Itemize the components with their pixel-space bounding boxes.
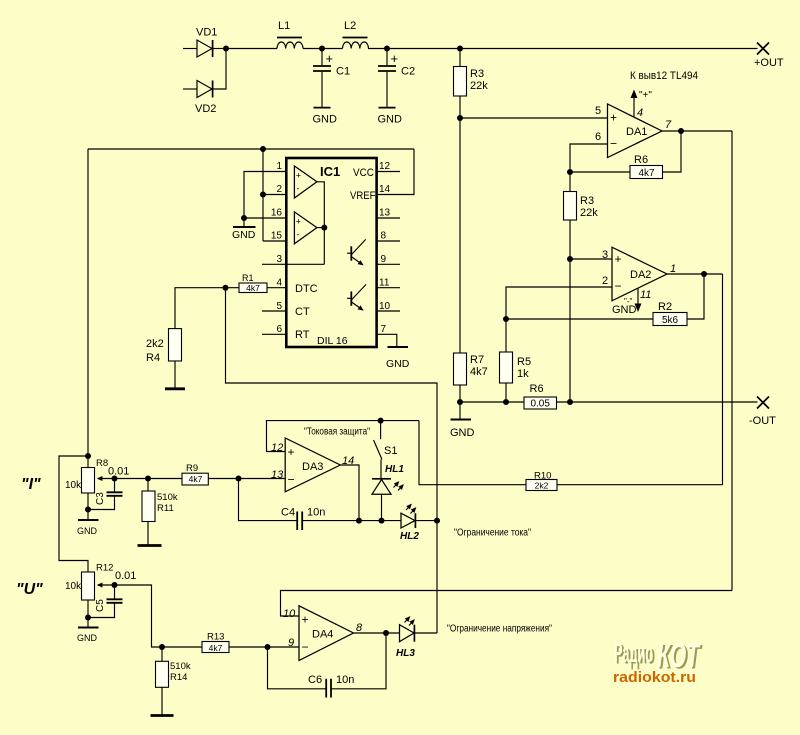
transistor Q inside IC1 (upper) <box>347 239 366 264</box>
wire DA1 feedback <box>570 131 681 172</box>
svg-text:L2: L2 <box>344 20 356 32</box>
svg-text:22k: 22k <box>470 80 488 92</box>
svg-text:4k7: 4k7 <box>209 643 223 653</box>
svg-text:R1: R1 <box>242 273 254 283</box>
wire R4 to R1 <box>175 288 226 329</box>
svg-text:10: 10 <box>379 301 391 312</box>
svg-text:R6: R6 <box>530 383 544 395</box>
svg-text:9: 9 <box>288 637 294 649</box>
svg-text:DA2: DA2 <box>630 269 651 281</box>
svg-text:10n: 10n <box>307 507 325 519</box>
wire top rail <box>226 48 758 50</box>
switch S1 <box>374 421 398 479</box>
svg-text:R3: R3 <box>470 68 484 80</box>
resistor R9 <box>182 463 239 485</box>
wire DA3 pin 12 to S1 rail <box>267 421 420 452</box>
node: left rail R8 branch <box>85 453 91 459</box>
svg-text:GND: GND <box>386 358 410 370</box>
svg-text:C6: C6 <box>308 674 322 686</box>
svg-text:VD2: VD2 <box>195 103 216 115</box>
node: R3 top <box>457 46 463 52</box>
op-amp DA1 <box>595 104 672 158</box>
svg-text:+OUT: +OUT <box>754 57 784 69</box>
svg-text:C3: C3 <box>95 492 106 505</box>
svg-text:"Ограничение тока": "Ограничение тока" <box>454 528 531 539</box>
wire S1 rail to R10 <box>419 421 723 485</box>
wire R12 wiper to R13 <box>115 585 163 647</box>
svg-text:C4: C4 <box>281 507 295 519</box>
resistor R11 <box>138 479 178 546</box>
wire to DA2 pin 3 <box>570 258 612 260</box>
svg-text:GND: GND <box>232 229 256 241</box>
svg-text:10k: 10k <box>65 581 82 592</box>
node: pin2 junction <box>260 192 266 198</box>
svg-text:+: + <box>296 217 301 227</box>
svg-text:GND: GND <box>450 427 475 439</box>
svg-text:R13: R13 <box>207 632 224 643</box>
transistor Q inside IC1 (lower) <box>347 284 366 310</box>
svg-text:DIL 16: DIL 16 <box>317 335 348 347</box>
wire DA4 output <box>354 632 400 634</box>
node: DA4 out/C6 junction <box>383 630 389 636</box>
svg-text:−: − <box>615 279 622 293</box>
node: pin2/15 branch <box>260 146 266 152</box>
wire DA3 output <box>340 465 359 521</box>
svg-text:+: + <box>288 445 295 459</box>
ground arrow on DA2 pin 11 <box>612 289 642 317</box>
svg-text:DA4: DA4 <box>312 629 333 641</box>
wire DA2 output down to R10 <box>722 274 724 485</box>
resistor R14 <box>151 647 191 716</box>
capacitor C5 <box>88 570 136 618</box>
wire C6 feedback <box>268 633 387 689</box>
svg-text:5: 5 <box>276 301 282 312</box>
svg-text:-: - <box>297 230 300 240</box>
logo Радио КОТ <box>614 637 703 677</box>
svg-text:"+": "+" <box>639 90 652 101</box>
node: C5 top <box>112 582 118 588</box>
LED HL2 <box>400 505 437 543</box>
node: R6/R3 junction <box>567 169 573 175</box>
op-amp DA2 <box>602 247 676 301</box>
node: R5 bottom <box>503 399 509 405</box>
svg-text:C5: C5 <box>95 599 106 612</box>
svg-text:0.01: 0.01 <box>108 466 129 478</box>
wire DA2 output <box>667 273 723 275</box>
svg-text:R4: R4 <box>146 352 160 364</box>
svg-text:4k7: 4k7 <box>638 168 655 179</box>
resistor R13 <box>162 632 268 653</box>
node: S1 top junction <box>378 418 384 424</box>
svg-text:DA3: DA3 <box>302 461 323 473</box>
node: R8/C3 bottom junction <box>85 507 91 513</box>
potentiometer R12 <box>65 563 115 601</box>
node: HL2/DTC wire junction <box>434 518 440 524</box>
wire IC1 pin 7 to ground <box>377 334 397 346</box>
wire VREF top rail <box>88 148 414 150</box>
svg-text:6: 6 <box>595 131 601 143</box>
wire R3 to R7 <box>459 118 461 353</box>
svg-text:VREF: VREF <box>350 190 376 202</box>
node: DA2 output <box>701 271 707 277</box>
svg-text:R11: R11 <box>157 503 174 514</box>
svg-text:1: 1 <box>670 263 676 275</box>
svg-text:+: + <box>610 111 617 125</box>
svg-text:3: 3 <box>276 254 282 265</box>
wire DA1 pin 6 <box>570 144 608 172</box>
node: HL1 bottom junction <box>379 518 385 524</box>
wire R8 bottom <box>87 493 89 520</box>
svg-text:GND: GND <box>77 633 98 643</box>
node: L1/C1 junction <box>319 46 325 52</box>
svg-text:IC1: IC1 <box>320 164 340 179</box>
node: diode junction <box>223 46 229 52</box>
svg-text:15: 15 <box>271 231 283 242</box>
capacitor C2 <box>378 49 416 126</box>
svg-text:R14: R14 <box>170 672 187 683</box>
wire to DA3 pin 13 <box>239 478 286 480</box>
wire DA2 pin 2 <box>506 287 612 319</box>
wire VREF to IC1 pin 14 <box>377 149 415 195</box>
resistor R3 (upper) <box>454 49 489 119</box>
svg-text:-OUT: -OUT <box>749 415 776 427</box>
LED HL3 <box>396 617 437 659</box>
capacitor C1 <box>313 49 351 126</box>
svg-text:DA1: DA1 <box>626 126 647 138</box>
IC1 pin numbers right <box>379 161 391 335</box>
svg-text:CT: CT <box>295 306 310 318</box>
capacitor C3 <box>88 466 129 510</box>
svg-text:HL3: HL3 <box>396 648 415 659</box>
node: DA3 pin13 junction <box>236 476 242 482</box>
svg-text:11: 11 <box>640 289 651 301</box>
svg-text:VD1: VD1 <box>196 27 217 39</box>
power arrow "+" on DA1 pin 4 <box>631 90 653 118</box>
inductor L1 <box>277 20 303 49</box>
svg-text:-: - <box>297 184 300 194</box>
svg-text:DTC: DTC <box>295 283 318 295</box>
node: DA1 pin5 junction <box>457 115 463 121</box>
svg-text:L1: L1 <box>278 20 290 32</box>
svg-text:HL2: HL2 <box>400 531 419 542</box>
svg-text:2: 2 <box>276 184 282 195</box>
svg-text:GND: GND <box>378 114 403 126</box>
svg-text:S1: S1 <box>384 445 397 457</box>
svg-text:"Токовая защита": "Токовая защита" <box>304 427 370 438</box>
svg-text:HL1: HL1 <box>385 464 404 475</box>
wire DTC node down to LEDs <box>226 288 438 633</box>
wire IC1 pins 1,16 to ground <box>244 172 286 219</box>
capacitor C4 <box>281 507 325 531</box>
svg-text:R8: R8 <box>96 458 108 469</box>
wire DA1 output down right side <box>731 131 733 591</box>
svg-text:7: 7 <box>381 324 387 335</box>
LED HL1 <box>372 464 404 521</box>
svg-text:4: 4 <box>637 107 643 119</box>
svg-text:13: 13 <box>271 469 284 481</box>
svg-text:16: 16 <box>271 208 283 219</box>
svg-text:4: 4 <box>276 278 282 289</box>
svg-text:Радио: Радио <box>614 637 653 668</box>
svg-text:"U": "U" <box>16 581 43 598</box>
svg-text:8: 8 <box>381 231 387 242</box>
svg-text:10: 10 <box>283 608 296 620</box>
wire comparator outputs <box>317 182 324 264</box>
svg-text:11: 11 <box>379 278 390 289</box>
svg-text:0.05: 0.05 <box>530 399 550 410</box>
node: DA4 pin9 junction <box>265 644 271 650</box>
node: R7 bottom <box>457 399 463 405</box>
svg-text:8: 8 <box>356 622 363 634</box>
svg-text:1k: 1k <box>517 368 529 380</box>
svg-text:4k7: 4k7 <box>189 474 203 484</box>
node: L2/C2 junction <box>384 46 390 52</box>
svg-text:2: 2 <box>602 275 608 287</box>
svg-text:6: 6 <box>276 324 282 335</box>
svg-text:+: + <box>391 51 399 66</box>
ground (IC1 pins 1,16) <box>232 218 256 241</box>
node: R12/C5 bottom junction <box>85 615 91 621</box>
terminal -OUT <box>749 397 776 428</box>
wire bypass to R12 <box>59 456 88 572</box>
wire -OUT rail <box>460 401 758 403</box>
svg-text:+: + <box>302 613 309 627</box>
svg-text:10k: 10k <box>65 480 82 491</box>
wire left rail (VREF) <box>87 149 89 468</box>
wire C4 / feedback <box>239 479 402 521</box>
svg-text:R7: R7 <box>470 354 484 366</box>
wire DA2 feedback <box>506 274 704 319</box>
resistor R7 <box>454 353 488 402</box>
resistor R10 <box>526 471 557 491</box>
svg-text:GND: GND <box>313 114 338 126</box>
svg-text:5: 5 <box>595 105 601 117</box>
svg-text:0.01: 0.01 <box>115 570 136 582</box>
svg-text:2k2: 2k2 <box>146 338 164 350</box>
svg-text:"I": "I" <box>21 476 41 493</box>
resistor R4 <box>146 329 185 389</box>
comparator 2 inside IC1 <box>294 212 317 244</box>
svg-text:12: 12 <box>271 442 283 454</box>
capacitor C6 <box>308 674 354 698</box>
svg-text:GND: GND <box>77 526 98 536</box>
svg-text:RT: RT <box>295 329 310 341</box>
svg-text:VCC: VCC <box>353 167 374 179</box>
ground (rail GND) <box>450 402 475 439</box>
wire R12 bottom <box>87 600 89 627</box>
svg-text:radiokot.ru: radiokot.ru <box>613 669 696 686</box>
node: DA3 out/C4 junction <box>356 518 362 524</box>
ground (IC1 pin 7) <box>386 347 410 370</box>
svg-text:+: + <box>326 51 334 66</box>
node: R11 top <box>145 476 151 482</box>
wire DA4 pin 10 to DA1 output <box>281 591 733 617</box>
svg-text:"Ограничение напряжения": "Ограничение напряжения" <box>447 624 552 635</box>
potentiometer R8 <box>65 458 115 493</box>
svg-text:12: 12 <box>379 161 391 172</box>
node: R1/R4 junction <box>223 285 229 291</box>
svg-text:−: − <box>302 640 309 654</box>
svg-text:10n: 10n <box>336 674 354 686</box>
svg-text:7: 7 <box>665 119 672 131</box>
wire to DA4 pin 9 <box>268 646 300 648</box>
wire IC1 pins 2,15 <box>263 149 286 241</box>
terminal +OUT <box>754 43 784 70</box>
svg-text:510k: 510k <box>157 492 178 503</box>
svg-text:R2: R2 <box>658 301 672 313</box>
svg-text:22k: 22k <box>580 207 598 219</box>
wire to DA1 pin 5 <box>460 117 608 119</box>
svg-text:C1: C1 <box>336 66 350 78</box>
node: comparator output junction <box>321 225 327 231</box>
resistor R5 <box>500 319 532 402</box>
svg-text:510k: 510k <box>170 661 191 672</box>
svg-text:1: 1 <box>276 161 282 172</box>
comparator 1 inside IC1 <box>294 166 317 198</box>
svg-text:C2: C2 <box>401 66 415 78</box>
svg-text:14: 14 <box>379 184 391 195</box>
IC1 body <box>286 158 376 347</box>
node: C3 top <box>112 476 118 482</box>
ground (R12) <box>77 628 99 644</box>
resistor R6 (shunt 0.05) <box>524 383 557 410</box>
node: DA1 output <box>678 128 684 134</box>
svg-text:R12: R12 <box>96 563 113 574</box>
wire R8 wiper to R9 <box>115 478 183 480</box>
svg-text:4k7: 4k7 <box>246 283 260 293</box>
svg-text:4k7: 4k7 <box>470 366 488 378</box>
svg-text:R6: R6 <box>634 154 648 166</box>
svg-text:GND: GND <box>612 304 637 316</box>
ground (R8) <box>77 520 99 536</box>
diode VD2 <box>183 49 226 116</box>
wire down to -OUT rail <box>569 259 571 402</box>
node: R2/R5 junction <box>503 316 509 322</box>
IC1 left pin stubs (3, 5, 6) <box>262 264 324 334</box>
resistor R1 <box>239 273 267 293</box>
node: R3 lower bottom <box>567 399 573 405</box>
svg-text:5k6: 5k6 <box>662 315 679 326</box>
op-amp DA4 <box>283 606 363 661</box>
svg-text:2k2: 2k2 <box>535 481 549 491</box>
node: R13/R14 junction <box>159 644 165 650</box>
svg-text:−: − <box>610 137 617 151</box>
op-amp DA3 <box>271 438 354 492</box>
wire DA1 output <box>662 130 732 132</box>
svg-text:13: 13 <box>379 208 391 219</box>
diode VD1 <box>183 27 226 58</box>
node: DA2 pin3 junction <box>567 256 573 262</box>
svg-text:R5: R5 <box>517 356 531 368</box>
resistor R3 (lower 22k) <box>564 172 599 259</box>
svg-text:R9: R9 <box>186 463 198 474</box>
resistor R2 <box>653 301 687 326</box>
node: pin16 gnd junction <box>241 215 247 221</box>
svg-text:+: + <box>615 252 622 266</box>
svg-text:9: 9 <box>381 254 387 265</box>
svg-text:R3: R3 <box>580 195 594 207</box>
inductor L2 <box>343 20 369 49</box>
svg-text:К выв12 TL494: К выв12 TL494 <box>630 70 698 82</box>
wire R1 to IC1 pin 4 <box>226 287 287 289</box>
svg-text:−: − <box>288 473 295 487</box>
svg-text:3: 3 <box>602 249 608 261</box>
IC1 pin numbers left <box>271 161 283 335</box>
resistor R6 (feedback 4k7) <box>630 154 663 179</box>
svg-text:+: + <box>296 171 301 181</box>
IC1 right pin stubs <box>377 172 401 312</box>
